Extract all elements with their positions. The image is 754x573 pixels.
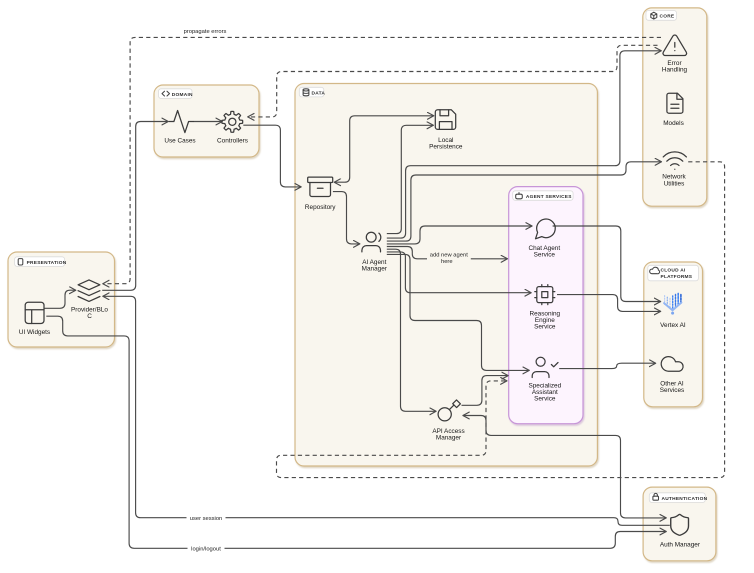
wire UIWidgets to Provider — [45, 290, 76, 308]
container CORE — [643, 8, 707, 206]
svg-text:propagate errors: propagate errors — [184, 29, 227, 35]
svg-text:DOMAIN: DOMAIN — [172, 92, 193, 98]
badge AGENT SERVICES — [513, 191, 573, 201]
svg-text:Persistence: Persistence — [429, 144, 463, 151]
wire Provider to UseCases — [102, 122, 168, 291]
wire Repository to AIAgentManager — [333, 192, 360, 244]
svg-text:AUTHENTICATION: AUTHENTICATION — [662, 496, 708, 502]
container DATA — [295, 84, 597, 467]
wire Repository to LocalPersistence (bidirectional) — [334, 116, 434, 182]
node Repository — [305, 177, 336, 211]
node Models — [663, 93, 684, 127]
node Controllers — [217, 111, 248, 144]
node Reasoning Engine Service — [530, 285, 561, 331]
wire ErrorHandling to Provider dashed (propagate errors) — [103, 37, 661, 283]
wire ReasoningEngine to VertexAI — [557, 295, 661, 312]
node Other AI Services — [660, 357, 685, 394]
svg-text:Vertex AI: Vertex AI — [660, 322, 686, 329]
wire UseCases to Controllers — [194, 121, 223, 123]
svg-text:PRESENTATION: PRESENTATION — [27, 260, 67, 266]
node Use Cases — [164, 111, 195, 145]
container AUTHENTICATION — [643, 487, 716, 561]
node Auth Manager — [660, 514, 701, 548]
svg-text:UI Widgets: UI Widgets — [19, 329, 50, 336]
wire ErrorHandling to Controllers dashed — [248, 45, 658, 117]
wire AIAgentManager to ReasoningEngine — [387, 252, 531, 293]
badge AUTHENTICATION — [649, 493, 707, 503]
svg-text:Utilities: Utilities — [664, 180, 685, 187]
badge PRESENTATION — [15, 257, 67, 267]
svg-text:DATA: DATA — [312, 90, 326, 96]
node Vertex AI — [660, 293, 686, 329]
svg-text:Services: Services — [660, 387, 685, 394]
badge CORE — [646, 11, 677, 21]
wire NetworkUtilities to SpecializedAssistant dashed — [277, 162, 725, 478]
node Network Utilities — [662, 152, 686, 187]
node Provider/BLoC — [71, 280, 108, 320]
badge CLOUD AI PLATFORMS — [648, 265, 699, 281]
wire AIAgentManager to NetworkUtilities — [387, 162, 662, 241]
svg-text:add new agent: add new agent — [430, 252, 468, 258]
wire add-new-agent arrow into AgentServices — [471, 258, 508, 260]
wire ChatAgentService to VertexAI — [553, 226, 661, 302]
svg-text:PLATFORMS: PLATFORMS — [661, 274, 693, 280]
wire AIAgentManager to LocalPersistence — [387, 125, 434, 233]
svg-text:login/logout: login/logout — [191, 546, 221, 552]
node AI Agent Manager — [362, 232, 388, 272]
svg-text:Repository: Repository — [305, 204, 336, 211]
wire add-new-agent connector stub — [387, 247, 427, 259]
node Specialized Assistant Service — [528, 357, 561, 402]
svg-text:Service: Service — [534, 395, 556, 402]
svg-text:here: here — [441, 259, 453, 265]
container DOMAIN — [154, 85, 259, 157]
svg-text:Controllers: Controllers — [217, 138, 248, 145]
svg-text:Network: Network — [662, 173, 686, 180]
svg-text:Manager: Manager — [436, 435, 462, 442]
svg-text:Service: Service — [534, 324, 556, 331]
wire AIAgentManager to APIAccessManager — [387, 249, 436, 411]
svg-text:Use Cases: Use Cases — [164, 138, 195, 145]
node Error Handling — [662, 35, 688, 73]
svg-text:AGENT SERVICES: AGENT SERVICES — [526, 194, 572, 200]
wire AIAgentManager to SpecializedAssistant — [387, 254, 530, 370]
badge DATA — [299, 87, 325, 97]
node Local Persistence — [429, 110, 463, 151]
container PRESENTATION — [8, 252, 115, 347]
node Chat Agent Service — [528, 219, 560, 259]
container CLOUD AI PLATFORMS — [644, 262, 703, 407]
svg-text:user session: user session — [190, 516, 223, 522]
wire AuthManager to Provider (user session) — [103, 296, 670, 525]
node UI Widgets — [19, 302, 50, 336]
svg-text:C: C — [87, 313, 92, 320]
svg-text:Auth Manager: Auth Manager — [660, 541, 701, 548]
wire APIAccessManager to SpecializedAssistant — [462, 376, 509, 406]
svg-text:Manager: Manager — [362, 265, 388, 272]
wire APIAccessManager to AuthManager (bidirectional) — [463, 416, 666, 518]
label user session — [187, 514, 226, 522]
wire SpecializedAssistant to OtherAIServices — [559, 363, 656, 368]
wire AIAgentManager to ChatAgentService — [387, 226, 532, 244]
wire Controllers to Repository — [243, 125, 301, 187]
label login/logout — [188, 544, 225, 552]
container AGENT SERVICES — [509, 187, 583, 424]
svg-text:CLOUD AI: CLOUD AI — [661, 268, 686, 274]
svg-text:Handling: Handling — [662, 67, 688, 74]
svg-text:Models: Models — [663, 120, 684, 127]
svg-text:CORE: CORE — [660, 14, 675, 20]
wire AIAgentManager to ErrorHandling — [387, 51, 662, 238]
svg-text:Service: Service — [534, 252, 556, 259]
wire UIWidgets to AuthManager (login/logout) — [46, 316, 666, 548]
node API Access Manager — [432, 400, 464, 442]
badge DOMAIN — [159, 89, 194, 99]
